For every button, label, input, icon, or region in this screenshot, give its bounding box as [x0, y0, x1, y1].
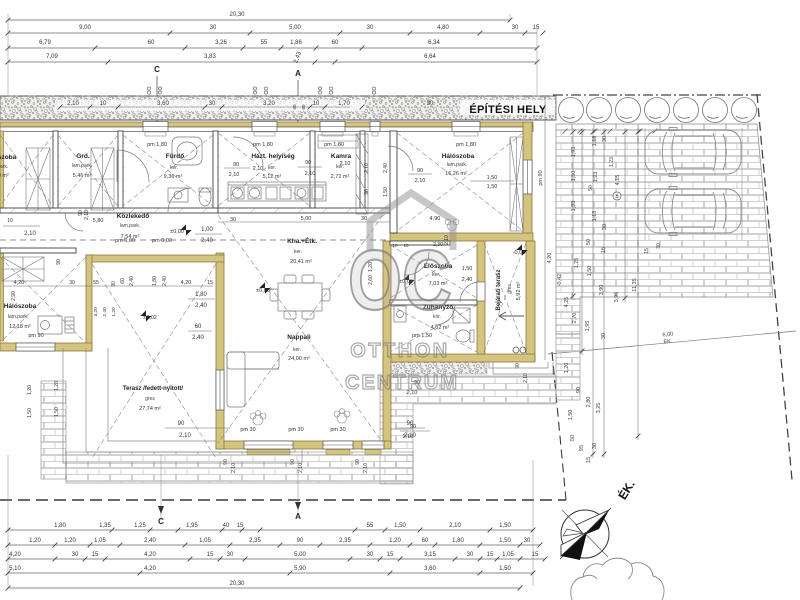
svg-text:15: 15 [532, 552, 539, 558]
kamra shelves [318, 134, 368, 214]
entrance arrow [499, 312, 524, 320]
svg-text:5,46 m²: 5,46 m² [73, 173, 92, 179]
gravel strip dimension labels [55, 100, 434, 111]
svg-text:5,10: 5,10 [9, 566, 21, 572]
bottom dimension row 2 [6, 538, 543, 547]
svg-text:5,92 m²: 5,92 m² [516, 282, 522, 301]
east wall window [523, 160, 532, 194]
house south wall east part [383, 354, 535, 362]
room Nappali [287, 334, 311, 362]
svg-text:lam.park.: lam.park. [0, 164, 8, 170]
svg-text:10: 10 [313, 101, 320, 107]
room Zuhanyzó [412, 304, 453, 339]
dimension chain top row 4 [6, 51, 540, 65]
svg-text:1,50: 1,50 [568, 410, 574, 421]
svg-text:2,40: 2,40 [383, 163, 389, 173]
svg-text:1,20: 1,20 [27, 385, 33, 395]
plant top-right bedroom [445, 219, 459, 230]
svg-text:2,10: 2,10 [363, 463, 369, 473]
svg-text:1,18: 1,18 [592, 136, 598, 147]
svg-text:4,80: 4,80 [437, 25, 449, 31]
svg-text:1,95: 1,95 [186, 523, 198, 529]
svg-text:7,09: 7,09 [46, 54, 58, 60]
room Házt. helyiség [251, 153, 294, 180]
fürdő north arc [233, 137, 263, 167]
svg-text:2,10: 2,10 [179, 433, 191, 439]
room Terasz [123, 386, 184, 412]
svg-text:pm 1,50: pm 1,50 [412, 333, 432, 339]
bottom dimension row 3 [6, 552, 548, 561]
interior partition Házt/Kamra [310, 131, 315, 208]
svg-text:55: 55 [261, 40, 268, 46]
svg-text:2,10: 2,10 [340, 161, 351, 167]
svg-text:90: 90 [576, 387, 582, 393]
leader verticals bottom [8, 455, 533, 586]
svg-text:2,40: 2,40 [162, 276, 168, 286]
survey line 6,00 EK [548, 331, 796, 354]
south wall living room [216, 441, 391, 449]
svg-text:2,70: 2,70 [572, 313, 578, 324]
room hálószoba top-left [0, 154, 17, 179]
svg-text:Hálószoba: Hálószoba [4, 303, 37, 310]
svg-text:1,23: 1,23 [593, 172, 599, 183]
svg-text:pm 0,00: pm 0,00 [152, 238, 172, 244]
svg-text:2,35: 2,35 [339, 538, 351, 544]
east exterior wall top-right room [523, 122, 532, 240]
svg-text:3,83: 3,83 [204, 54, 216, 60]
svg-text:30: 30 [69, 280, 75, 286]
svg-text:1,20: 1,20 [64, 538, 76, 544]
living room south windows [244, 441, 384, 455]
section cut lines through strip [157, 95, 298, 131]
svg-text:2,40: 2,40 [102, 307, 108, 317]
svg-text:30: 30 [361, 216, 367, 222]
svg-text:Közlekedő: Közlekedő [117, 213, 150, 220]
svg-text:pm 30: pm 30 [330, 427, 345, 433]
svg-text:30: 30 [524, 538, 531, 544]
svg-text:90: 90 [78, 210, 84, 216]
dimension chain top row 1 (20,30) [6, 12, 513, 22]
svg-text:1,50: 1,50 [27, 408, 33, 418]
svg-text:60: 60 [422, 538, 429, 544]
level dashed line mid plan [0, 239, 390, 241]
window parapet labels pm 1,80 [147, 142, 476, 148]
boundary bottom dashed [0, 499, 566, 501]
west wall top-right bedroom [390, 131, 397, 233]
dimension chain top row 2 [6, 25, 546, 35]
svg-text:16,26 m²: 16,26 m² [445, 171, 467, 177]
svg-text:2,40: 2,40 [462, 277, 473, 283]
watermark OC logo roof [370, 193, 453, 250]
svg-text:20,41 m²: 20,41 m² [290, 259, 312, 265]
svg-text:2,10: 2,10 [253, 166, 264, 172]
svg-text:30: 30 [601, 333, 607, 339]
svg-text:3,20: 3,20 [93, 307, 99, 317]
svg-text:50: 50 [588, 185, 594, 191]
svg-text:6,00: 6,00 [662, 332, 673, 339]
svg-text:15: 15 [207, 280, 213, 286]
svg-text:60: 60 [301, 104, 306, 110]
bedroom right door arc [388, 146, 413, 171]
svg-text:gres: gres [145, 396, 155, 402]
east wall bottom-left bedroom [86, 255, 92, 351]
extra parking labels [588, 157, 662, 254]
svg-text:1,50: 1,50 [499, 566, 511, 572]
svg-text:24,00 m²: 24,00 m² [288, 356, 310, 362]
wall south of top-right bedroom [390, 233, 533, 241]
svg-text:4,20: 4,20 [9, 552, 21, 558]
svg-text:60: 60 [332, 40, 339, 46]
svg-text:gres: gres [507, 284, 513, 294]
svg-text:2,10: 2,10 [415, 178, 426, 184]
svg-text:30: 30 [367, 25, 374, 31]
east wall of living room [383, 241, 391, 448]
room Hálószoba top-right [442, 153, 514, 190]
svg-text:1,80: 1,80 [195, 292, 207, 298]
svg-text:1,05: 1,05 [94, 538, 106, 544]
svg-text:90: 90 [417, 168, 423, 174]
svg-text:1,80: 1,80 [54, 523, 66, 529]
room Grd [72, 153, 93, 179]
svg-text:60: 60 [148, 40, 155, 46]
car 1 [645, 128, 741, 177]
trees along north boundary [559, 98, 757, 123]
svg-text:4,90: 4,90 [430, 216, 441, 222]
svg-text:-0,42: -0,42 [557, 274, 563, 287]
svg-text:ÉK.: ÉK. [663, 338, 673, 346]
svg-text:90: 90 [223, 459, 229, 465]
svg-text:4,20: 4,20 [181, 280, 192, 286]
bath door arc [168, 188, 192, 212]
svg-text:lam.park.: lam.park. [120, 223, 141, 229]
room Kha.+Étk. [287, 236, 317, 265]
large tree outline bottom [571, 558, 664, 600]
dimension chain top row 3 [6, 40, 540, 50]
svg-text:1,05: 1,05 [502, 552, 514, 558]
svg-text:5,80: 5,80 [93, 218, 104, 224]
svg-text:Házt. helyiség: Házt. helyiség [251, 153, 294, 160]
svg-text:30: 30 [602, 224, 608, 230]
room Bejárati terasz [496, 269, 522, 310]
svg-text:1,50: 1,50 [54, 407, 60, 417]
east wall of vestibule block [477, 241, 485, 354]
wardrobe closets top-left with X [2, 137, 523, 281]
plant bottom-right of living room [334, 409, 350, 424]
svg-text:Grd.: Grd. [76, 153, 90, 160]
svg-text:2,40: 2,40 [129, 276, 135, 286]
svg-text:1,05: 1,05 [199, 538, 211, 544]
svg-text:15: 15 [644, 248, 650, 254]
svg-text:6,79: 6,79 [39, 40, 51, 46]
svg-text:3,20: 3,20 [263, 101, 275, 107]
svg-text:1,20: 1,20 [111, 307, 117, 317]
entrance terrace east wall [526, 241, 535, 361]
ÉPÍTÉSI HELY label [460, 100, 555, 116]
terrace entry door arc [460, 282, 480, 302]
svg-text:30: 30 [592, 443, 598, 449]
brick paving strip south of house [66, 452, 413, 483]
svg-text:90: 90 [410, 424, 416, 430]
svg-text:3,90: 3,90 [599, 285, 605, 296]
svg-text:2,40: 2,40 [192, 335, 204, 341]
svg-text:2,40: 2,40 [195, 303, 207, 309]
corridor door arc 2 [65, 213, 83, 231]
svg-text:4,20: 4,20 [547, 253, 553, 264]
svg-text:1,20: 1,20 [389, 538, 401, 544]
south side dimension labels [27, 363, 529, 473]
desk bottom-left bedroom [38, 316, 74, 334]
svg-text:9,36 m²: 9,36 m² [164, 174, 183, 180]
svg-text:pm 1,80: pm 1,80 [253, 142, 273, 148]
svg-text:90: 90 [355, 459, 361, 465]
svg-text:1,50: 1,50 [499, 538, 511, 544]
section marker C bottom [158, 506, 164, 526]
svg-text:2,90: 2,90 [11, 291, 17, 301]
svg-text:27,74 m²: 27,74 m² [139, 406, 161, 412]
svg-text:1,93: 1,93 [571, 201, 577, 212]
svg-text:3,60: 3,60 [424, 566, 436, 572]
boundary diagonal near compass [552, 352, 566, 500]
svg-text:1,20: 1,20 [54, 381, 60, 391]
svg-text:15: 15 [586, 457, 592, 463]
svg-text:90: 90 [305, 160, 311, 166]
svg-text:5,00: 5,00 [301, 216, 312, 222]
svg-text:4,20: 4,20 [144, 566, 156, 572]
svg-text:90: 90 [297, 538, 304, 544]
svg-text:30: 30 [210, 25, 217, 31]
car 2 [645, 187, 741, 236]
svg-text:2,10: 2,10 [305, 171, 316, 177]
svg-text:9,00: 9,00 [79, 25, 91, 31]
room Közlekedő [117, 213, 150, 240]
svg-text:pm 1,80: pm 1,80 [147, 142, 167, 148]
svg-text:2,80: 2,80 [586, 397, 592, 408]
svg-text:10: 10 [7, 218, 13, 224]
svg-text:Kamra: Kamra [331, 153, 352, 160]
svg-text:5,00: 5,00 [289, 25, 301, 31]
svg-text:5,90: 5,90 [294, 566, 306, 572]
section marker C top [154, 65, 160, 122]
svg-text:90: 90 [56, 259, 62, 265]
room Fürdő [164, 153, 185, 180]
vestibule door arc [406, 252, 429, 275]
svg-text:15: 15 [387, 552, 394, 558]
interior wall under north rooms [0, 208, 390, 213]
parking vertical dimension lines [571, 128, 641, 458]
svg-text:20,30: 20,30 [229, 12, 245, 18]
svg-text:pm 30: pm 30 [240, 427, 255, 433]
svg-text:60: 60 [195, 324, 202, 330]
svg-text:1,18: 1,18 [592, 211, 598, 222]
gravel strip (építési hely) [0, 96, 556, 120]
svg-text:4,25: 4,25 [564, 297, 570, 308]
vestibule north wall [390, 241, 450, 245]
svg-text:1,20: 1,20 [29, 538, 41, 544]
svg-text:1,00: 1,00 [201, 227, 213, 233]
brick paving parking area [556, 124, 773, 334]
svg-text:lam.park.: lam.park. [447, 162, 468, 168]
svg-text:Nappali: Nappali [287, 334, 311, 341]
svg-text:55: 55 [93, 280, 99, 286]
svg-text:90: 90 [233, 162, 239, 168]
north exterior wall [0, 122, 533, 127]
svg-text:30: 30 [602, 136, 608, 142]
dashed room diagonals [0, 133, 526, 458]
svg-text:60: 60 [292, 104, 297, 110]
anchor circle marks above wall [147, 87, 375, 94]
svg-text:C: C [154, 65, 160, 74]
svg-text:5,12 m²: 5,12 m² [263, 174, 282, 180]
svg-text:C: C [158, 517, 164, 526]
svg-text:4,15: 4,15 [615, 175, 621, 186]
brick paving south-east of house [380, 376, 556, 484]
svg-text:6,34: 6,34 [428, 40, 440, 46]
leader verticals top [8, 14, 537, 95]
svg-text:2,35: 2,35 [249, 538, 261, 544]
svg-text:55: 55 [367, 523, 374, 529]
south wall bottom-left bedroom [0, 343, 92, 351]
svg-text:2,10: 2,10 [403, 434, 414, 440]
svg-text:15: 15 [533, 25, 540, 31]
parking dimension labels [557, 136, 638, 463]
dining table with chairs [270, 275, 330, 319]
svg-text:10: 10 [100, 101, 107, 107]
section marker A top [295, 69, 301, 122]
svg-text:1,23: 1,23 [609, 157, 615, 167]
svg-text:1,50: 1,50 [462, 266, 473, 272]
svg-text:11,35: 11,35 [632, 278, 638, 291]
boundary diagonal right [757, 94, 792, 480]
svg-text:CENTRUM: CENTRUM [345, 372, 459, 394]
svg-text:A: A [295, 69, 301, 78]
svg-text:1,86: 1,86 [290, 40, 302, 46]
svg-text:2,40: 2,40 [144, 538, 156, 544]
interior partition Grd/Fürdő [118, 131, 123, 208]
svg-text:30: 30 [209, 101, 216, 107]
boundary dash-dot through trees [553, 94, 762, 96]
svg-text:2,10: 2,10 [449, 523, 461, 529]
svg-text:1,50: 1,50 [394, 523, 406, 529]
plant bottom-left of living room [250, 411, 266, 426]
svg-text:1,95: 1,95 [585, 321, 591, 332]
entrance terrace step outlines [489, 362, 553, 374]
svg-text:6,64: 6,64 [424, 54, 436, 60]
svg-text:lam.park.: lam.park. [8, 314, 29, 320]
north wall windows [143, 122, 480, 137]
svg-text:1,50: 1,50 [587, 266, 593, 277]
svg-text:A: A [295, 512, 301, 521]
sofa living room [227, 352, 279, 407]
svg-text:Hálószoba: Hálószoba [0, 154, 17, 161]
svg-text:pm 0,00: pm 0,00 [115, 238, 135, 244]
svg-text:2,72 m²: 2,72 m² [331, 174, 350, 180]
svg-text:3,25: 3,25 [596, 403, 602, 414]
marker B [613, 192, 621, 200]
svg-text:2,10: 2,10 [229, 172, 240, 178]
house-side vertical dimension line [538, 97, 553, 360]
svg-text:1,50: 1,50 [499, 523, 511, 529]
svg-text:2,10: 2,10 [523, 373, 529, 383]
svg-text:1,80: 1,80 [452, 538, 464, 544]
room Előszoba [424, 263, 453, 287]
svg-text:3,26: 3,26 [215, 40, 227, 46]
svg-text:1,80: 1,80 [152, 276, 158, 286]
svg-text:4,20: 4,20 [144, 552, 156, 558]
west edge wall stubs [0, 131, 4, 208]
svg-text:pm 30: pm 30 [288, 427, 303, 433]
interior partition Fürdő/Házt [213, 131, 218, 208]
svg-text:OC: OC [348, 233, 452, 327]
svg-text:15,40 m²: 15,40 m² [0, 173, 9, 179]
svg-text:15: 15 [207, 552, 214, 558]
compass rose [560, 508, 611, 560]
svg-text:ÉPÍTÉSI HELY: ÉPÍTÉSI HELY [469, 103, 547, 116]
interior wall corridor south [0, 248, 76, 253]
svg-text:1,50: 1,50 [383, 187, 389, 197]
svg-text:2,10: 2,10 [24, 231, 36, 237]
svg-text:3,96: 3,96 [614, 292, 620, 303]
room Kamra [331, 153, 352, 180]
svg-text:pm 1,80: pm 1,80 [324, 142, 344, 148]
west wall living room [216, 253, 224, 449]
svg-text:1,50: 1,50 [487, 184, 498, 190]
svg-text:ker.: ker. [294, 249, 302, 255]
svg-text:3,15: 3,15 [424, 552, 436, 558]
svg-text:1,70: 1,70 [338, 101, 350, 107]
svg-text:5,00: 5,00 [294, 552, 306, 558]
level marker diamonds [140, 224, 527, 321]
shower room fixtures [394, 306, 474, 342]
entrance circles OO [513, 347, 526, 353]
svg-text:Bejárati terasz: Bejárati terasz [496, 269, 502, 310]
svg-text:30: 30 [427, 101, 434, 107]
parking stall lines [563, 128, 742, 240]
svg-text:30: 30 [367, 552, 374, 558]
shower door arc [435, 305, 455, 325]
brick paving strip left of parking [556, 334, 580, 400]
svg-text:Fürdő: Fürdő [166, 153, 184, 160]
partition hatch marks [10, 131, 396, 213]
svg-text:60: 60 [120, 278, 126, 284]
svg-text:ker.: ker. [293, 347, 301, 353]
svg-text:ker.: ker. [268, 165, 276, 171]
svg-text:Hálószoba: Hálószoba [442, 153, 475, 160]
section marker A bottom [295, 502, 301, 521]
svg-text:15: 15 [487, 552, 494, 558]
svg-text:3,60: 3,60 [157, 101, 169, 107]
svg-text:12,18 m²: 12,18 m² [9, 324, 31, 330]
svg-text:1,50: 1,50 [571, 171, 577, 182]
svg-text:2,10: 2,10 [231, 463, 237, 473]
west wall living room window [216, 370, 224, 410]
bottom dimension row 1 [6, 523, 536, 532]
svg-text:pm 1,80: pm 1,80 [456, 142, 476, 148]
svg-text:30: 30 [467, 552, 474, 558]
svg-text:lam.park.: lam.park. [72, 163, 93, 169]
svg-text:90: 90 [178, 421, 185, 427]
svg-text:2,40: 2,40 [201, 238, 213, 244]
svg-text:2,10: 2,10 [67, 101, 79, 107]
svg-text:30: 30 [227, 552, 234, 558]
interior partition szoba/Grd [53, 131, 58, 208]
svg-text:15: 15 [601, 247, 607, 253]
utility room counter [228, 182, 326, 201]
gravel patch south of house [383, 359, 487, 374]
svg-text:1,35: 1,35 [99, 523, 111, 529]
svg-text:40: 40 [223, 523, 230, 529]
bottom dimension row 5 (20,30) [6, 581, 523, 590]
terrace north wall [86, 255, 224, 262]
